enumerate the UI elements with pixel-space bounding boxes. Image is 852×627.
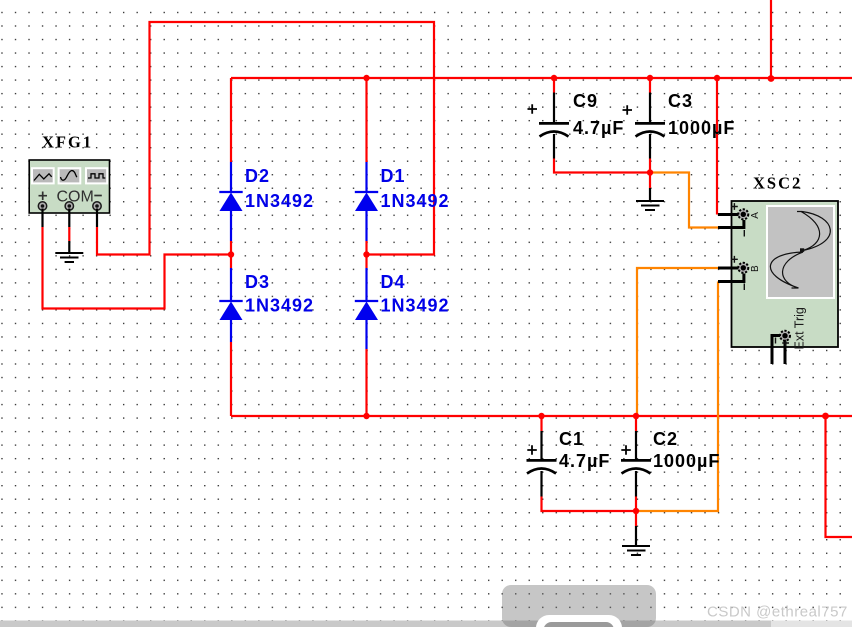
ground under XFG1 COM: [55, 253, 83, 262]
wire scope A feed: [716, 78, 718, 215]
label XSC2: [753, 174, 802, 193]
wire C9 C3 top leads red: [554, 78, 650, 93]
wire C1 leads red: [542, 416, 637, 511]
svg-text:C2: C2: [653, 429, 678, 449]
wire net V1: XFG1 plus to bridge left node: [43, 227, 232, 309]
wire C9 C3 bottom net: [554, 159, 650, 189]
wire right branch down: [826, 416, 852, 537]
svg-text:D4: D4: [381, 272, 406, 292]
wire bottom rail y416: [231, 415, 852, 417]
capacitor C3: [623, 93, 666, 159]
svg-text:XFG1: XFG1: [42, 133, 93, 152]
label C2: [653, 429, 720, 471]
ground under C3: [636, 188, 664, 210]
scope terminal Ext Trig: [776, 307, 807, 349]
svg-text:1N3492: 1N3492: [245, 296, 314, 316]
svg-text:1N3492: 1N3492: [381, 191, 450, 211]
svg-text:1000µF: 1000µF: [668, 118, 735, 138]
wire orange scope B minus: [636, 282, 718, 512]
oscilloscope XSC2: [732, 201, 839, 347]
svg-text:XSC2: XSC2: [753, 174, 802, 193]
label C9: [573, 91, 624, 138]
scope terminal A: [731, 203, 761, 236]
label D2: [245, 166, 314, 211]
watermark text: [707, 604, 848, 621]
XFG1 pin stubs black: [43, 209, 98, 253]
diode D2: [219, 162, 242, 241]
wire orange scope A minus: [650, 173, 719, 228]
wire C2 leads red: [635, 416, 637, 526]
label D4: [381, 272, 450, 316]
svg-text:D3: D3: [245, 272, 270, 292]
svg-text:D1: D1: [381, 166, 406, 186]
capacitor C1: [527, 431, 557, 497]
svg-text:COM: COM: [57, 189, 94, 206]
scope pin stubs: [718, 215, 785, 365]
diode D3: [219, 268, 242, 342]
svg-text:Ext Trig: Ext Trig: [793, 307, 807, 349]
function generator XFG1: [29, 160, 109, 213]
label C3: [668, 91, 735, 138]
label D1: [381, 166, 450, 211]
scrollbar bar bottom: [0, 621, 852, 627]
diode D1: [355, 162, 378, 241]
label C1: [559, 429, 610, 471]
svg-text:A: A: [750, 212, 761, 219]
svg-text:C9: C9: [573, 91, 598, 111]
svg-text:4.7µF: 4.7µF: [559, 451, 610, 471]
svg-text:C1: C1: [559, 429, 584, 449]
svg-text:1N3492: 1N3492: [381, 296, 450, 316]
wire top rail y78: [231, 77, 852, 79]
svg-text:D2: D2: [245, 166, 270, 186]
wire COM red segment: [68, 227, 70, 241]
wire D2 column segments: [230, 78, 232, 416]
ground under C2: [622, 526, 650, 555]
diode D4: [355, 268, 378, 349]
capacitor C9: [528, 93, 570, 159]
watermark overlay blob: [502, 585, 656, 627]
svg-text:B: B: [750, 265, 761, 272]
svg-text:CSDN @ethreal757: CSDN @ethreal757: [707, 604, 848, 621]
scope terminal B: [731, 256, 761, 290]
label D3: [245, 272, 314, 316]
capacitor C2: [621, 431, 651, 497]
wire top right vertical: [770, 0, 772, 79]
label XFG1: [42, 133, 93, 152]
svg-text:4.7µF: 4.7µF: [573, 118, 624, 138]
svg-text:1000µF: 1000µF: [653, 451, 720, 471]
wire orange scope B plus: [637, 268, 719, 415]
wire net V2: XFG1 minus up over top to bridge right node: [97, 22, 434, 255]
svg-text:1N3492: 1N3492: [245, 191, 314, 211]
wire D1 column segments: [365, 78, 367, 416]
svg-text:C3: C3: [668, 91, 693, 111]
